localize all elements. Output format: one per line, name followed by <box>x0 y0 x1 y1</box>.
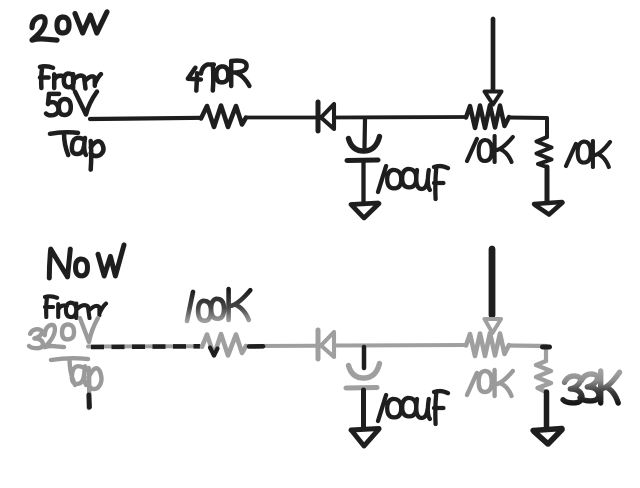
label "50V" <box>46 92 97 116</box>
label "From" (bottom) <box>45 296 106 318</box>
potentiometer 10K (bottom) <box>466 333 509 356</box>
pot wiper arrow (top) <box>485 92 502 105</box>
label "20W" <box>32 12 107 40</box>
label "33K" <box>563 371 620 403</box>
wire (junction to cap, bottom) <box>362 347 367 368</box>
wire (bottom input, gray) <box>88 344 202 348</box>
wire (10K to ground, top right) <box>545 167 550 202</box>
label "10K" (bottom) <box>467 370 513 396</box>
label "320V" <box>29 318 98 348</box>
junction blob (corner) <box>543 345 550 350</box>
wire (diode to pot, bottom) <box>334 343 466 348</box>
resistor 470R <box>201 106 246 128</box>
ground (bottom right) <box>533 429 562 445</box>
label "470R" <box>188 61 250 91</box>
resistor 10K (top right) <box>537 137 552 167</box>
wire (junction to cap, top) <box>362 119 367 148</box>
wire (470R to diode) <box>246 116 315 120</box>
label "100uF" (top) <box>378 166 448 199</box>
wire (diode to pot, top) <box>334 115 466 119</box>
resistor 100K <box>202 334 246 356</box>
resistor 33K <box>536 361 551 392</box>
wire (100K to diode, gray) <box>246 344 315 348</box>
wire (pot feed, top) <box>491 19 496 90</box>
label "10K" (pot top) <box>467 136 513 162</box>
ground (top right) <box>534 202 563 215</box>
capacitor 100uF (bottom) <box>346 364 380 389</box>
wire overdraw marks (black) <box>210 346 263 355</box>
label "From" (top) <box>40 66 101 88</box>
label "100uF" (bottom) <box>378 391 448 424</box>
wire (cap to ground, bottom) <box>361 390 366 428</box>
capacitor 100uF (top) <box>347 137 380 161</box>
label "Tap" (bottom) <box>51 358 101 408</box>
label "Tap" (top) <box>50 132 103 169</box>
label "10K" (top right) <box>566 141 610 167</box>
wire (top input) <box>90 118 201 119</box>
label "100K" <box>187 289 250 321</box>
wire (pot to 10K, top) <box>509 118 547 138</box>
ground (bottom cap) <box>351 429 379 447</box>
wire (33K to ground, bottom) <box>544 392 550 429</box>
wire (black dashed overlay) <box>91 344 200 349</box>
diode (bottom) <box>318 330 334 359</box>
wire (pot to 33K, bottom) <box>509 346 546 362</box>
ground (top cap) <box>351 203 379 218</box>
label "Now" <box>49 245 124 278</box>
wire (cap to ground, top) <box>361 162 365 202</box>
wire (pot feed, bottom) <box>489 249 496 315</box>
potentiometer 10K (top) <box>466 105 509 128</box>
diode (top) <box>318 102 334 131</box>
pot wiper arrow (bottom) <box>485 319 502 333</box>
